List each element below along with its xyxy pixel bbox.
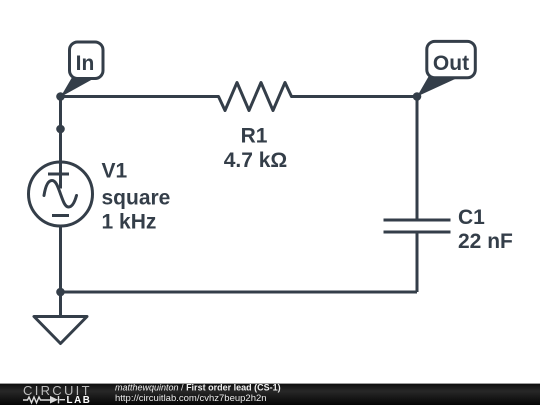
node V1 top	[56, 125, 65, 134]
footer bar	[0, 384, 540, 405]
flag In box	[70, 42, 104, 79]
resistor R1	[219, 83, 292, 111]
voltage source V1	[29, 162, 93, 226]
svg-text:square: square	[102, 186, 171, 209]
svg-text:http://circuitlab.com/cvhz7beu: http://circuitlab.com/cvhz7beup2h2n	[115, 393, 267, 404]
svg-text:1 kHz: 1 kHz	[102, 210, 157, 233]
bottom wire	[61, 291, 418, 294]
capacitor C1	[384, 220, 451, 232]
wire Out node down to C1	[416, 97, 419, 221]
wire V1 bottom to ground node	[59, 226, 62, 292]
svg-text:In: In	[76, 52, 95, 75]
wire top-left to resistor	[61, 95, 219, 98]
wire left rail vertical	[59, 97, 62, 189]
wire C1 to bottom rail	[416, 232, 419, 292]
svg-text:Out: Out	[433, 52, 469, 75]
CircuitLab logo waveform	[23, 396, 65, 403]
svg-text:4.7 kΩ: 4.7 kΩ	[224, 149, 288, 172]
CircuitLab logo diode	[50, 396, 58, 404]
svg-text:LAB: LAB	[67, 395, 92, 405]
flag Out pointer	[417, 74, 466, 97]
node ground	[56, 288, 65, 297]
node In	[56, 92, 65, 101]
flag In pointer	[61, 74, 103, 97]
svg-text:matthewquinton / First order l: matthewquinton / First order lead (CS-1)	[115, 383, 281, 393]
svg-text:V1: V1	[102, 160, 128, 183]
node Out	[413, 92, 422, 101]
wire resistor to Out node	[292, 95, 418, 98]
svg-text:R1: R1	[241, 125, 268, 148]
flag Out box	[427, 41, 476, 77]
svg-text:C1: C1	[458, 206, 485, 229]
ground	[34, 292, 87, 344]
svg-text:22 nF: 22 nF	[458, 230, 513, 253]
